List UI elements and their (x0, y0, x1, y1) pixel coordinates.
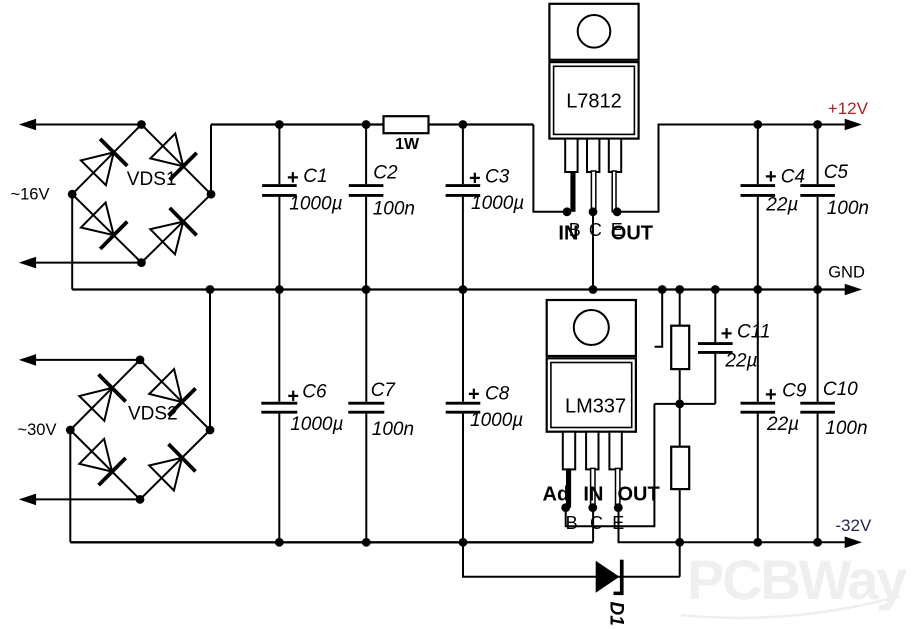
svg-text:C2: C2 (373, 163, 398, 184)
svg-text:C5: C5 (824, 162, 849, 183)
svg-text:C11: C11 (737, 322, 770, 343)
svg-text:1000µ: 1000µ (289, 194, 342, 215)
svg-text:+: + (469, 168, 481, 190)
svg-text:+: + (287, 167, 299, 189)
svg-text:B: B (566, 513, 578, 533)
svg-text:IN: IN (558, 223, 578, 245)
svg-text:OUT: OUT (618, 484, 660, 506)
svg-text:LM337: LM337 (565, 396, 626, 418)
svg-text:1000µ: 1000µ (471, 193, 524, 214)
svg-text:22µ: 22µ (765, 195, 798, 216)
svg-text:GND: GND (828, 264, 865, 282)
svg-text:C: C (589, 220, 602, 240)
svg-text:22µ: 22µ (724, 351, 757, 372)
svg-text:C6: C6 (302, 382, 327, 403)
svg-text:C4: C4 (781, 167, 805, 188)
svg-text:1W: 1W (395, 136, 420, 153)
svg-text:VDS1: VDS1 (127, 169, 177, 190)
svg-text:VDS2: VDS2 (128, 404, 178, 425)
svg-text:+: + (765, 166, 777, 188)
svg-text:C1: C1 (303, 166, 327, 187)
svg-text:+: + (721, 323, 733, 345)
svg-text:+12V: +12V (828, 99, 869, 118)
svg-text:Ad: Ad (543, 484, 570, 506)
svg-text:C3: C3 (485, 167, 510, 188)
svg-text:L7812: L7812 (566, 90, 622, 112)
svg-text:1000µ: 1000µ (290, 414, 343, 435)
svg-text:~30V: ~30V (18, 421, 57, 439)
svg-text:C7: C7 (371, 380, 397, 401)
svg-text:~16V: ~16V (11, 186, 50, 204)
svg-text:E: E (612, 513, 624, 533)
svg-text:C: C (590, 513, 603, 533)
svg-text:100n: 100n (825, 418, 867, 439)
svg-text:100n: 100n (372, 419, 414, 440)
svg-text:+: + (468, 383, 480, 405)
svg-text:22µ: 22µ (766, 414, 799, 435)
svg-text:1000µ: 1000µ (470, 410, 523, 431)
svg-text:C9: C9 (782, 381, 807, 402)
svg-text:D1: D1 (606, 602, 627, 626)
svg-text:+: + (287, 385, 299, 407)
svg-text:100n: 100n (827, 198, 869, 219)
svg-text:OUT: OUT (611, 223, 653, 245)
svg-text:IN: IN (583, 484, 603, 506)
svg-text:100n: 100n (373, 199, 415, 220)
svg-text:C8: C8 (485, 384, 510, 405)
svg-text:-32V: -32V (835, 516, 872, 535)
svg-text:C10: C10 (823, 379, 858, 400)
svg-text:+: + (765, 384, 777, 406)
